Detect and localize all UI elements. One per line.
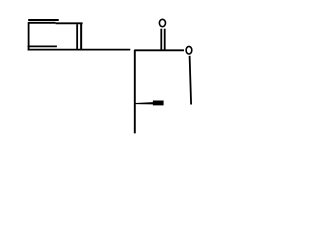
chain: horizontal bond from quaternary carbon to carbonyl and ester O bbox=[134, 49, 184, 51]
stereo wedge bond (solid) to methyl bbox=[135, 101, 163, 106]
benzene ring: bottom double bond inner line bbox=[28, 45, 57, 47]
benzene ring: bottom edge + bond to chain bbox=[28, 49, 131, 51]
carbonyl oxygen O glyph bbox=[159, 19, 165, 26]
benzene ring: top double bond outer line bbox=[28, 19, 59, 21]
vertical chain: carbon down through stereocenter to methyl bbox=[134, 50, 136, 133]
benzene ring: right edge outer line bbox=[80, 23, 82, 49]
molecule skeletal structure bbox=[0, 0, 222, 151]
carbonyl C=O double bond line 2 bbox=[164, 29, 166, 51]
benzene ring: left edge bbox=[28, 22, 30, 50]
benzene ring: top-left double bond lower line bbox=[28, 22, 55, 24]
bond ester O to methyl bbox=[190, 56, 192, 105]
ester oxygen O glyph bbox=[186, 46, 192, 54]
benzene ring: right edge double bond inner line bbox=[76, 24, 78, 49]
benzene ring: top-right single bond bbox=[56, 22, 83, 24]
carbonyl C=O double bond line 1 bbox=[160, 29, 162, 51]
